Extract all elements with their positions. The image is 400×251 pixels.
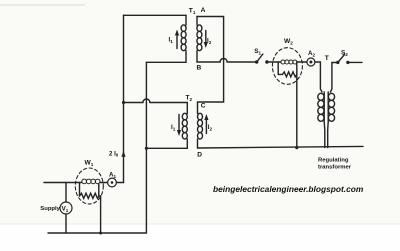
svg-text:B: B	[197, 65, 202, 72]
svg-text:W2: W2	[284, 38, 293, 46]
W1 pressure link up to line	[98, 184, 100, 196]
W1 resistor zigzag	[80, 193, 101, 198]
svg-text:W1: W1	[85, 160, 94, 168]
voltmeter V1	[60, 202, 72, 214]
wire: W2 to A2	[297, 61, 307, 63]
svg-text:I2: I2	[208, 124, 213, 132]
arrow I1 (T2) down	[178, 115, 180, 134]
W2 resistor zigzag	[278, 72, 297, 77]
wire: B to S1 with hop over A-link	[197, 59, 257, 62]
svg-text:T1: T1	[189, 8, 196, 16]
junction dot bus2/T2 primary bottom	[145, 147, 148, 150]
regulating transformer right winding	[328, 92, 335, 148]
svg-text:S2: S2	[341, 50, 348, 58]
wire: A2 to regulating transformer left limb	[315, 62, 322, 92]
wire: S2 out	[348, 61, 362, 63]
arrow 2I0 head	[121, 151, 125, 157]
svg-text:A1: A1	[109, 171, 116, 179]
wire: T1 primary bottom to bus2	[146, 61, 186, 63]
wire: S1 to W2 coil	[267, 61, 281, 63]
arrow I2 (T1) down	[205, 31, 207, 46]
svg-text:Regulating: Regulating	[318, 157, 349, 163]
wire: rail A1 to bus1 corner	[116, 182, 123, 184]
junction dot W2/D wire	[295, 146, 298, 149]
wire: supply top rail	[44, 182, 82, 184]
faint scan edge bottom	[0, 223, 400, 225]
W2 current coil	[281, 60, 297, 64]
bus2 vertical wire	[145, 62, 147, 233]
wire: supply bottom rail	[48, 232, 146, 234]
W2 pressure branch drop	[277, 62, 279, 74]
regulating transformer left winding	[318, 92, 325, 148]
svg-text:A2: A2	[308, 50, 315, 58]
svg-text:V1: V1	[62, 206, 69, 214]
wire: right winding top to S2	[330, 63, 337, 93]
wire: top feed to T1 primary	[124, 14, 187, 16]
svg-text:beingelectricalengineer.blogsp: beingelectricalengineer.blogspot.com	[213, 184, 364, 194]
W1 pressure wire to bottom rail	[100, 196, 102, 233]
W2 pressure wire down to D wire	[296, 62, 298, 148]
junction node bus1/T2 feed	[122, 101, 125, 104]
wire: rail between W1 coil and A1	[101, 182, 108, 184]
svg-text:T: T	[325, 55, 329, 62]
junction dot W1/bottom rail	[99, 232, 102, 235]
arrow I1 (T1) up	[176, 32, 178, 49]
svg-text:C: C	[201, 102, 206, 109]
wattmeter W1 dashed circle	[75, 168, 103, 204]
transformer T1 primary winding	[181, 15, 186, 62]
svg-text:I1: I1	[171, 124, 176, 132]
arrow I2 (T2) up	[205, 117, 207, 134]
svg-text:S1: S1	[254, 48, 261, 56]
transformer T2 secondary winding	[198, 107, 203, 149]
wire: V1 stub top	[65, 183, 67, 203]
transformer T1 secondary winding	[197, 17, 202, 63]
svg-text:A: A	[201, 7, 206, 14]
svg-text:transformer: transformer	[318, 164, 352, 170]
W1 pressure branch drop	[79, 183, 81, 197]
faint scan edge top	[0, 4, 85, 6]
svg-text:Supply: Supply	[40, 206, 60, 212]
ammeter A1	[108, 178, 117, 187]
wire: bus1 to T2 primary top with hop over bus2	[124, 99, 188, 103]
svg-text:T2: T2	[186, 95, 193, 103]
wire: A link (T1 secondary top to C)	[197, 17, 224, 107]
wire: V1 stub bottom	[65, 214, 67, 233]
transformer T2 primary winding	[182, 103, 187, 149]
ammeter A2	[307, 58, 315, 66]
svg-text:I1: I1	[169, 37, 174, 45]
wire: T2 primary bottom to bus2	[146, 147, 187, 149]
svg-text:I2: I2	[207, 38, 212, 46]
switch S1	[255, 60, 258, 63]
wattmeter W2 dashed circle	[272, 48, 302, 85]
wire: D bus	[198, 146, 364, 148]
svg-text:2 I0: 2 I0	[109, 150, 119, 157]
W1 current coil	[82, 179, 100, 184]
svg-text:D: D	[197, 152, 202, 159]
bus1 vertical wire (2 I0)	[123, 15, 125, 182]
switch S2	[336, 61, 339, 64]
